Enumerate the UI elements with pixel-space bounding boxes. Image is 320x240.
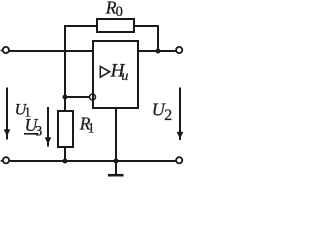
wire stub left of bottom input terminal: [1, 160, 3, 162]
op-amp gain triangle symbol: [100, 66, 109, 77]
wire amplifier common stem to ground: [115, 108, 117, 176]
junction node A (feedback / R1 / amp input): [63, 95, 68, 100]
wire stub left of input terminal: [1, 50, 3, 52]
terminal output bottom: [176, 157, 182, 163]
resistor R1: [58, 111, 73, 147]
ground: [108, 174, 124, 177]
wire feedback right vertical: [157, 25, 159, 51]
junction output node: [156, 49, 161, 54]
svg-text:U3: U3: [25, 115, 43, 139]
wire node A to amplifier input: [65, 96, 89, 98]
svg-text:R0: R0: [105, 0, 123, 20]
resistor R0: [97, 19, 134, 32]
wire R1 bottom stem: [64, 147, 66, 161]
svg-text:R1: R1: [79, 113, 95, 136]
terminal input top: [3, 47, 9, 53]
arrow U3 (voltage across R1): [45, 107, 51, 147]
wire top right (from R0): [134, 25, 159, 27]
terminal input bottom: [3, 157, 9, 163]
junction bottom rail at R1: [63, 159, 68, 164]
pin circle amplifier inverting input: [90, 94, 96, 100]
underline of U3: [24, 133, 38, 135]
op-amp U (controlled source Hu): [93, 41, 138, 108]
wire input (left terminal to amplifier): [10, 50, 94, 52]
arrow U1 (input voltage): [4, 88, 10, 140]
arrow U2 (output voltage): [177, 88, 183, 141]
junction bottom rail at ground stem: [114, 159, 119, 164]
terminal output top: [176, 47, 182, 53]
wire output (amplifier to right terminal): [137, 50, 176, 52]
wire feedback left vertical: [64, 25, 66, 111]
wire top left (to R0): [64, 25, 97, 27]
svg-text:U2: U2: [152, 100, 173, 124]
wire bottom common rail: [10, 160, 176, 162]
